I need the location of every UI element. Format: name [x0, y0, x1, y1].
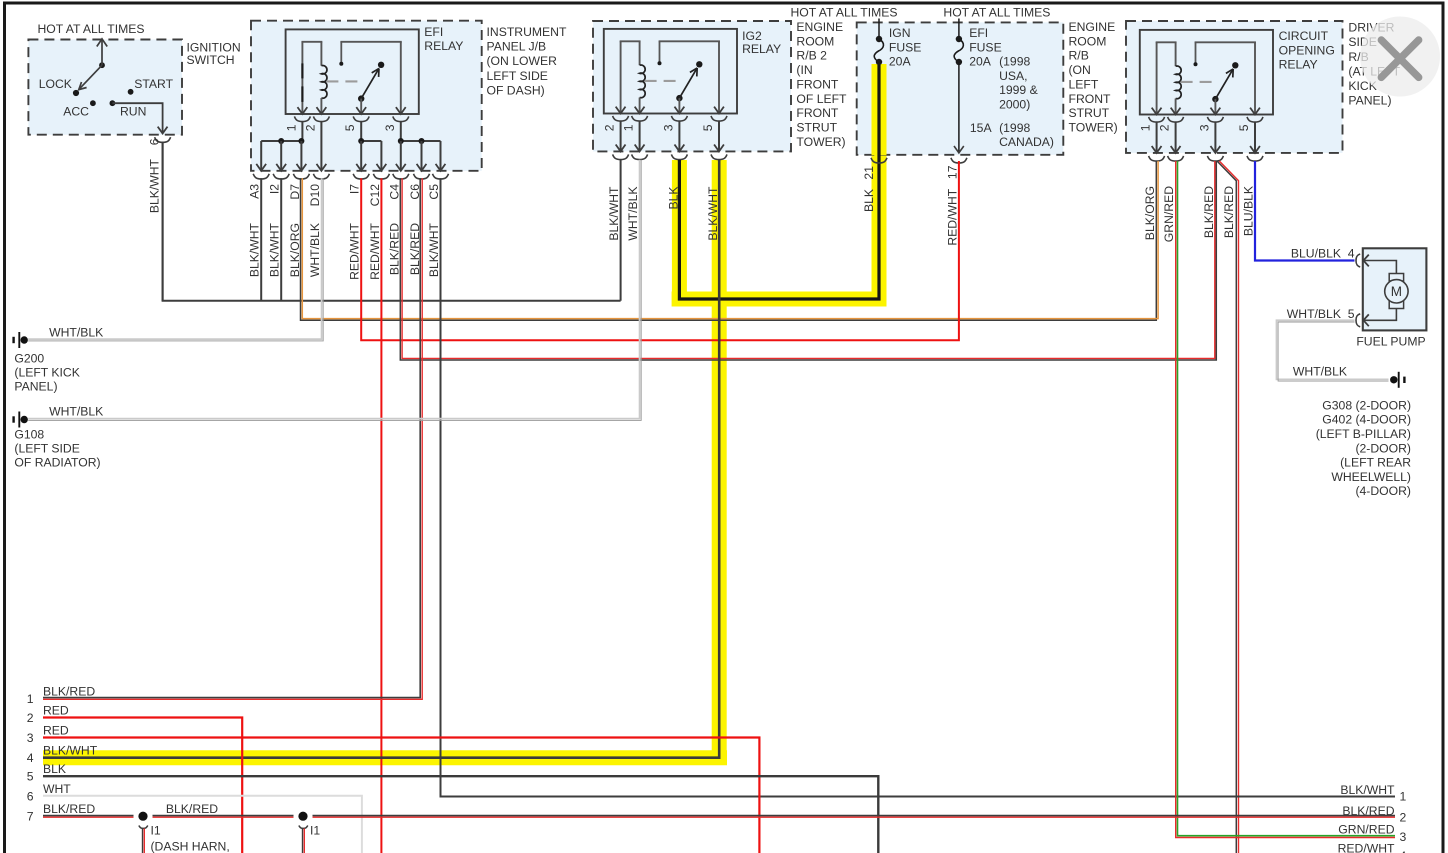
svg-text:(LEFT SIDE: (LEFT SIDE	[14, 442, 79, 456]
svg-text:LEFT SIDE: LEFT SIDE	[487, 69, 548, 83]
svg-text:(LEFT REAR: (LEFT REAR	[1340, 456, 1411, 470]
wire RED/WHT I7 to EFI fuse	[361, 161, 959, 340]
svg-text:CIRCUIT: CIRCUIT	[1279, 29, 1329, 43]
svg-text:IG2: IG2	[742, 29, 762, 43]
svg-text:TOWER): TOWER)	[796, 135, 845, 149]
svg-text:BLK/ORG: BLK/ORG	[1143, 186, 1157, 240]
EFI fuse feed wire	[958, 19, 960, 37]
svg-text:RELAY: RELAY	[424, 39, 463, 53]
wire BLK/WHT net ignition-A3-I2-IG2pin2	[162, 142, 164, 301]
row 7 wire BLK/RED	[43, 815, 134, 817]
highlight band IGN fuse to IG2 relay and row 4	[872, 66, 887, 299]
svg-text:G308 (2-DOOR): G308 (2-DOOR)	[1322, 398, 1411, 412]
COR pin wire	[1254, 122, 1256, 152]
svg-text:RED/WHT: RED/WHT	[348, 222, 362, 279]
svg-text:(1998: (1998	[999, 121, 1030, 135]
wire BLK/RED C6 to row1	[43, 178, 420, 697]
connector pin 6 of ignition switch	[155, 137, 171, 142]
wire WHT/BLK fuel pump to ground	[1277, 320, 1389, 379]
svg-text:BLK/RED: BLK/RED	[387, 223, 401, 275]
svg-text:4: 4	[27, 751, 34, 765]
EFI relay pin 3 wire + bus	[400, 122, 402, 141]
svg-text:6: 6	[27, 789, 34, 803]
close button	[1360, 17, 1440, 97]
highlight band on IGN fuse output inside box	[872, 64, 887, 155]
svg-text:2: 2	[1158, 124, 1172, 131]
svg-text:RELAY: RELAY	[742, 42, 781, 56]
wire BLK/ORG D7 to COR pin1	[301, 161, 1157, 320]
svg-text:ACC: ACC	[63, 104, 89, 118]
svg-text:EFI: EFI	[424, 25, 443, 39]
svg-text:INSTRUMENT: INSTRUMENT	[487, 25, 567, 39]
EFI relay drop C5 wire	[440, 141, 442, 170]
ground G308/G402	[1390, 376, 1397, 383]
svg-text:(LEFT KICK: (LEFT KICK	[14, 365, 79, 379]
svg-text:C12: C12	[368, 184, 382, 207]
svg-text:BLK: BLK	[43, 762, 66, 776]
svg-text:BLU/BLK: BLU/BLK	[1291, 247, 1341, 261]
wire BLK/WHT IG2 pin5 highlighted to row4	[43, 160, 719, 758]
row 6 wire WHT	[43, 796, 362, 853]
svg-text:17: 17	[945, 165, 959, 179]
svg-text:GRN/RED: GRN/RED	[1162, 186, 1176, 242]
svg-text:BLK/RED: BLK/RED	[43, 802, 95, 816]
svg-text:3: 3	[1197, 124, 1211, 131]
svg-text:WHT/BLK: WHT/BLK	[626, 187, 640, 241]
IG2 relay pin wire	[639, 121, 641, 150]
svg-text:R/B 2: R/B 2	[796, 49, 827, 63]
svg-text:4: 4	[1400, 849, 1407, 853]
svg-text:SWITCH: SWITCH	[187, 53, 235, 67]
svg-text:4: 4	[1348, 247, 1355, 261]
svg-text:M: M	[1391, 284, 1402, 299]
wire WHT/BLK D10 to ground G200	[28, 178, 321, 339]
ground G200	[21, 336, 28, 343]
svg-text:FUSE: FUSE	[889, 40, 922, 54]
ignition switch contacts	[99, 62, 105, 68]
EFI relay pin 1 wire to branch bus	[301, 122, 303, 141]
svg-text:WHT/BLK: WHT/BLK	[49, 325, 103, 339]
svg-text:5: 5	[1348, 307, 1355, 321]
svg-text:OF RADIATOR): OF RADIATOR)	[14, 456, 100, 470]
svg-text:1: 1	[284, 124, 298, 131]
svg-text:RED/WHT: RED/WHT	[945, 188, 959, 245]
svg-text:5: 5	[1237, 124, 1251, 131]
svg-text:BLK: BLK	[862, 189, 876, 212]
svg-text:2: 2	[303, 124, 317, 131]
svg-text:WHEELWELL): WHEELWELL)	[1331, 470, 1411, 484]
EFI relay drop C4 wire	[400, 141, 402, 170]
EFI relay drop I7 wire	[360, 141, 362, 170]
COR pin wire	[1175, 122, 1177, 152]
svg-text:1: 1	[622, 124, 636, 131]
svg-text:G200: G200	[14, 351, 44, 365]
COR pin wire	[1156, 122, 1158, 152]
svg-text:A3: A3	[248, 184, 262, 199]
svg-text:(ON: (ON	[1069, 63, 1091, 77]
svg-text:RED: RED	[43, 704, 69, 718]
IG2 relay pin wire	[620, 121, 622, 150]
svg-text:RED/WHT: RED/WHT	[1338, 842, 1395, 853]
I1 connector stub 1	[139, 826, 148, 829]
wire RED/WHT C12 down off page	[380, 178, 382, 853]
row 7 junction dots	[138, 812, 147, 821]
svg-text:1: 1	[1400, 789, 1407, 803]
svg-text:RELAY: RELAY	[1279, 58, 1318, 72]
svg-text:HOT AT ALL TIMES: HOT AT ALL TIMES	[943, 6, 1050, 20]
svg-text:BLK/WHT: BLK/WHT	[148, 158, 162, 213]
svg-text:2: 2	[603, 124, 617, 131]
circuit opening relay internals (coil + switch)	[1140, 30, 1273, 115]
svg-text:FUEL PUMP: FUEL PUMP	[1356, 335, 1425, 349]
svg-text:I2: I2	[268, 184, 282, 194]
svg-text:OF LEFT: OF LEFT	[796, 92, 847, 106]
EFI relay drop I2 wire	[280, 141, 282, 170]
row 5 wire BLK	[43, 776, 878, 853]
svg-text:BLK/WHT: BLK/WHT	[43, 744, 98, 758]
ignition switch box	[28, 40, 182, 135]
EFI relay drop D7 wire	[300, 141, 302, 170]
svg-text:I7: I7	[348, 184, 362, 194]
svg-text:CANADA): CANADA)	[999, 135, 1054, 149]
EFI relay output connectors	[253, 174, 269, 179]
COR pin wire	[1214, 122, 1216, 152]
ignition switch rotor arm	[79, 65, 103, 90]
IGN fuse feed wire	[878, 19, 880, 37]
svg-text:1: 1	[1139, 124, 1153, 131]
ignition switch arrow to battery feed	[101, 41, 103, 66]
svg-text:BLK/WHT: BLK/WHT	[268, 222, 282, 277]
IG2 relay pin wire	[678, 121, 680, 150]
svg-text:1999 &: 1999 &	[999, 83, 1038, 97]
svg-text:RED/WHT: RED/WHT	[368, 222, 382, 279]
wire RUN to pin 6	[112, 103, 162, 132]
svg-text:BLK/RED: BLK/RED	[1202, 186, 1216, 238]
svg-text:D10: D10	[308, 184, 322, 207]
row 2 wire RED	[43, 718, 242, 853]
svg-text:EFI: EFI	[969, 26, 988, 40]
svg-text:C5: C5	[427, 184, 441, 200]
svg-text:C4: C4	[387, 184, 401, 200]
svg-text:BLK/WHT: BLK/WHT	[427, 222, 441, 277]
engine room fuse dashed box	[857, 22, 1064, 154]
svg-text:WHT/BLK: WHT/BLK	[308, 223, 322, 277]
svg-text:BLK/WHT: BLK/WHT	[607, 186, 621, 241]
circuit opening relay dashed box	[1126, 21, 1343, 153]
row 3 wire RED	[43, 738, 759, 853]
wire BLK/WHT ignition pin6 down	[162, 142, 164, 301]
svg-text:G402 (4-DOOR): G402 (4-DOOR)	[1322, 413, 1411, 427]
svg-text:20A: 20A	[969, 55, 992, 69]
EFI relay internals (coil + switch)	[286, 29, 419, 114]
IG2 relay pin wire	[718, 121, 720, 150]
EFI relay drop C6 wire	[421, 141, 423, 170]
IG2 relay internals (coil + switch)	[604, 29, 737, 114]
svg-text:(IN: (IN	[796, 63, 812, 77]
svg-text:RUN: RUN	[120, 104, 146, 118]
fuel pump motor M	[1364, 261, 1397, 274]
EFI fuse	[956, 36, 962, 42]
wire WHT/BLK IG2 pin1 to ground G108	[28, 160, 639, 419]
svg-text:BLK/RED: BLK/RED	[166, 802, 218, 816]
svg-text:(2-DOOR): (2-DOOR)	[1355, 441, 1411, 455]
svg-text:PANEL J/B: PANEL J/B	[487, 40, 547, 54]
svg-text:6: 6	[148, 138, 162, 145]
svg-text:(DASH HARN,: (DASH HARN,	[151, 840, 230, 853]
svg-text:WHT/BLK: WHT/BLK	[49, 405, 103, 419]
svg-text:3: 3	[1400, 830, 1407, 844]
svg-text:WHT/BLK: WHT/BLK	[1293, 365, 1347, 379]
svg-text:IGNITION: IGNITION	[187, 40, 241, 54]
svg-text:BLU/BLK: BLU/BLK	[1242, 186, 1256, 236]
svg-text:ENGINE: ENGINE	[796, 20, 843, 34]
svg-text:PANEL): PANEL)	[1348, 94, 1391, 108]
svg-text:(4-DOOR): (4-DOOR)	[1355, 484, 1411, 498]
svg-text:WHT: WHT	[43, 782, 71, 796]
svg-text:3: 3	[383, 124, 397, 131]
svg-text:FRONT: FRONT	[796, 106, 839, 120]
EFI fuse output connector	[951, 158, 967, 163]
svg-text:PANEL): PANEL)	[14, 380, 57, 394]
svg-text:ENGINE: ENGINE	[1069, 20, 1116, 34]
svg-text:FRONT: FRONT	[1069, 92, 1112, 106]
svg-text:START: START	[134, 77, 173, 91]
svg-text:15A: 15A	[970, 121, 993, 135]
svg-text:USA,: USA,	[999, 69, 1027, 83]
svg-text:2: 2	[27, 711, 34, 725]
I1 connector stub 2	[299, 826, 308, 829]
svg-text:FUSE: FUSE	[969, 40, 1002, 54]
svg-text:I1: I1	[310, 824, 320, 838]
ground G108	[21, 416, 28, 423]
svg-text:STRUT: STRUT	[1069, 106, 1110, 120]
svg-text:ROOM: ROOM	[796, 34, 834, 48]
svg-text:7: 7	[27, 810, 34, 824]
svg-text:LEFT: LEFT	[1069, 77, 1099, 91]
svg-text:2: 2	[1400, 810, 1407, 824]
svg-text:1: 1	[27, 692, 34, 706]
svg-text:RED: RED	[43, 724, 69, 738]
svg-text:2000): 2000)	[999, 98, 1030, 112]
svg-text:TOWER): TOWER)	[1069, 120, 1118, 134]
wire BLK/RED COR pin3 jog down off page	[1217, 161, 1236, 853]
wire BLK IGN fuse output (highlighted)	[679, 65, 879, 299]
svg-text:5: 5	[701, 124, 715, 131]
svg-text:HOT AT ALL TIMES: HOT AT ALL TIMES	[791, 6, 898, 20]
svg-text:3: 3	[661, 124, 675, 131]
svg-text:BLK/WHT: BLK/WHT	[1340, 783, 1395, 797]
EFI relay dashed box	[251, 21, 482, 171]
svg-text:GRN/RED: GRN/RED	[1338, 823, 1394, 837]
IGN fuse	[876, 36, 882, 42]
fuel pump box	[1363, 248, 1427, 330]
EFI relay pin 2 wire	[320, 122, 322, 170]
svg-text:FRONT: FRONT	[796, 77, 839, 91]
svg-text:R/B: R/B	[1069, 49, 1089, 63]
svg-text:3: 3	[27, 731, 34, 745]
IGN fuse output connector	[871, 158, 887, 163]
COR output connectors	[1149, 156, 1165, 161]
svg-text:HOT AT ALL TIMES: HOT AT ALL TIMES	[38, 22, 145, 36]
svg-text:OPENING: OPENING	[1279, 43, 1335, 57]
IG2 relay output connectors	[613, 154, 629, 159]
svg-text:ROOM: ROOM	[1069, 34, 1107, 48]
svg-text:I1: I1	[151, 824, 161, 838]
EFI relay bus junction dots	[278, 138, 284, 144]
svg-text:IGN: IGN	[889, 26, 911, 40]
fuel pump pin4 arrow+connector	[1363, 255, 1368, 267]
svg-text:(LEFT B-PILLAR): (LEFT B-PILLAR)	[1316, 427, 1411, 441]
svg-text:(ON LOWER: (ON LOWER	[487, 54, 558, 68]
wire BLU/BLK COR pin5 to fuel pump	[1255, 161, 1355, 261]
fuel pump pin5 arrow+connector	[1363, 314, 1368, 326]
EFI relay drop C12 wire	[380, 141, 382, 170]
svg-text:BLK/RED: BLK/RED	[43, 684, 95, 698]
svg-text:OF DASH): OF DASH)	[487, 83, 545, 97]
svg-text:STRUT: STRUT	[796, 120, 837, 134]
EFI fuse output wire in box	[958, 64, 960, 153]
wire BLK/RED C4 to COR pin3	[400, 161, 1216, 360]
svg-text:BLK/RED: BLK/RED	[1342, 804, 1394, 818]
svg-text:BLK/WHT: BLK/WHT	[248, 222, 262, 277]
EFI relay pin 5 wire + bus	[360, 122, 362, 141]
svg-text:5: 5	[27, 770, 34, 784]
IG2 relay dashed box	[593, 21, 791, 151]
EFI relay drop A3 wire	[260, 141, 262, 170]
wire GRN/RED COR pin2 to right row3	[1176, 161, 1395, 838]
svg-text:G108: G108	[14, 427, 44, 441]
svg-text:LOCK: LOCK	[39, 77, 72, 91]
svg-text:(1998: (1998	[999, 55, 1030, 69]
svg-text:WHT/BLK: WHT/BLK	[1287, 307, 1341, 321]
svg-text:20A: 20A	[889, 55, 912, 69]
wire BLK/WHT C5 to right row1	[441, 178, 1396, 796]
svg-text:5: 5	[343, 124, 357, 131]
svg-text:21: 21	[862, 166, 876, 180]
svg-text:BLK/RED: BLK/RED	[1222, 186, 1236, 238]
